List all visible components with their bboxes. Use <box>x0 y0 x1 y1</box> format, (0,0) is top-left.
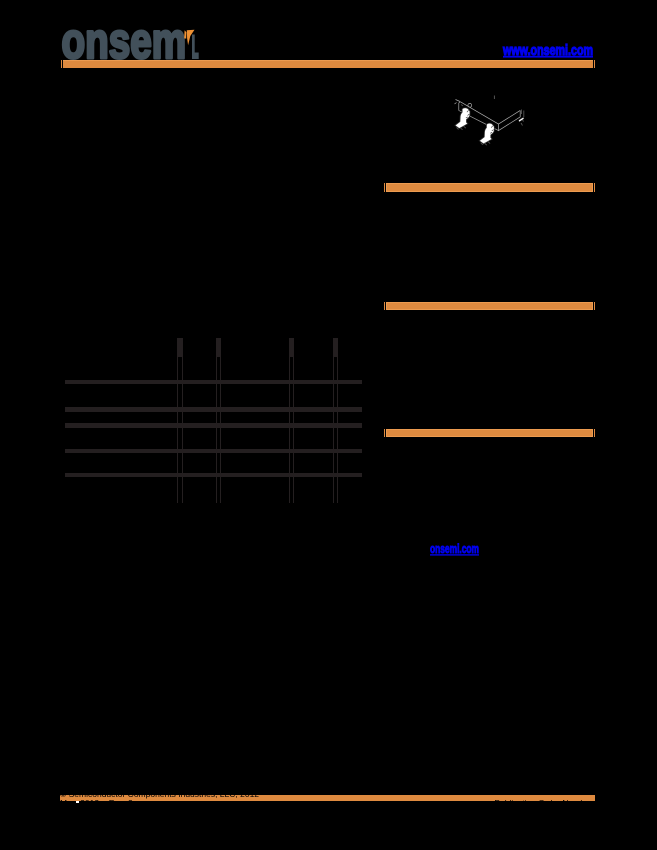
svg-text:onsem: onsem <box>62 24 187 64</box>
svg-text:onsemi.com: onsemi.com <box>430 542 479 556</box>
